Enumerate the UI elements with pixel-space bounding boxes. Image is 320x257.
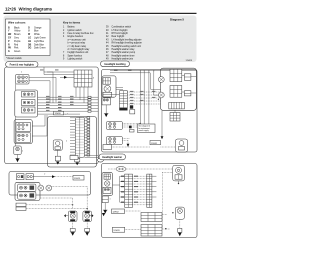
svg-text:Diagram 5: Diagram 5 [170, 18, 184, 22]
svg-text:O: O [28, 27, 30, 29]
svg-text:Battery: Battery [68, 26, 76, 29]
svg-text:a = accessory unit: a = accessory unit [68, 38, 87, 41]
svg-text:LB: LB [28, 41, 31, 43]
svg-text:LH front foglight: LH front foglight [112, 29, 128, 32]
svg-text:BR: BR [8, 34, 12, 36]
svg-text:RH front foglight: RH front foglight [112, 32, 129, 35]
svg-text:Headlight washer timer: Headlight washer timer [112, 54, 135, 57]
svg-text:Engine fusebox: Engine fusebox [68, 36, 84, 38]
svg-text:b = pre-post relay: b = pre-post relay [68, 42, 86, 45]
svg-text:Lighting switch: Lighting switch [68, 57, 84, 60]
svg-text:12H33: 12H33 [113, 230, 120, 232]
svg-text:* Diesel models: * Diesel models [6, 58, 23, 60]
svg-text:Blue: Blue [34, 31, 39, 33]
svg-text:Headlight levelling: Headlight levelling [104, 63, 126, 66]
svg-text:LG: LG [28, 38, 31, 40]
svg-text:→ *: → * [65, 113, 69, 115]
svg-text:d = front foglight relay: d = front foglight relay [68, 48, 91, 51]
svg-text:Yellow: Yellow [14, 31, 21, 33]
svg-text:Wire colours: Wire colours [8, 21, 26, 25]
svg-text:LH headlight levelling adjuste: LH headlight levelling adjuster [112, 38, 142, 41]
svg-text:Dark Blue: Dark Blue [34, 43, 45, 46]
svg-text:Headlight levelling switch uni: Headlight levelling switch unit [112, 45, 142, 48]
svg-text:Headlight washer: Headlight washer [102, 156, 122, 159]
svg-text:DG: DG [28, 48, 32, 50]
svg-text:12•26 Wiring diagrams: 12•26 Wiring diagrams [5, 7, 53, 12]
svg-text:GY: GY [8, 38, 12, 40]
svg-text:Light Green: Light Green [34, 37, 47, 40]
svg-text:12H28: 12H28 [186, 60, 193, 62]
svg-text:Foglight fusebox unit: Foglight fusebox unit [68, 51, 89, 54]
svg-text:*: * [21, 71, 22, 75]
svg-text:Key to items: Key to items [63, 21, 81, 25]
svg-text:DB: DB [28, 44, 32, 46]
svg-text:Front & rear foglights: Front & rear foglights [10, 64, 35, 67]
svg-text:Black: Black [14, 27, 20, 29]
svg-text:Ignition switch: Ignition switch [68, 29, 83, 32]
svg-text:*: * [22, 150, 23, 154]
svg-text:Orange: Orange [34, 26, 42, 29]
svg-text:Combination switch: Combination switch [112, 26, 132, 29]
svg-text:panel supply: panel supply [139, 130, 149, 132]
svg-text:Dark Green: Dark Green [34, 47, 46, 50]
svg-text:*: * [66, 140, 67, 144]
svg-text:Light Blue: Light Blue [34, 40, 45, 43]
svg-text:G: G [8, 51, 10, 53]
svg-text:PK: PK [8, 48, 12, 50]
svg-text:12H32: 12H32 [113, 212, 120, 214]
svg-text:Grey: Grey [14, 37, 20, 40]
svg-text:Rear foglight: Rear foglight [112, 35, 125, 38]
svg-text:Green: Green [14, 50, 21, 53]
svg-text:*: * [110, 198, 111, 201]
svg-text:12H30: 12H30 [55, 113, 62, 115]
svg-text:Headlight washer relay: Headlight washer relay [112, 48, 136, 51]
svg-text:c = dip beam relay: c = dip beam relay [68, 45, 87, 48]
svg-text:Fuse & relay box/fuse box: Fuse & relay box/fuse box [68, 32, 95, 35]
svg-text:Purple: Purple [14, 40, 21, 43]
svg-text:Spare fusebox: Spare fusebox [68, 54, 83, 57]
svg-text:12H29: 12H29 [74, 178, 81, 180]
svg-text:White: White [34, 33, 41, 36]
svg-text:Brown: Brown [14, 33, 21, 36]
svg-text:Headlight washer pump: Headlight washer pump [112, 51, 136, 54]
svg-text:Headlight washer jets: Headlight washer jets [112, 57, 134, 60]
svg-text:12H31: 12H31 [151, 143, 158, 145]
svg-text:RH headlight levelling adjuste: RH headlight levelling adjuster [112, 42, 143, 45]
svg-text:*: * [44, 172, 45, 176]
